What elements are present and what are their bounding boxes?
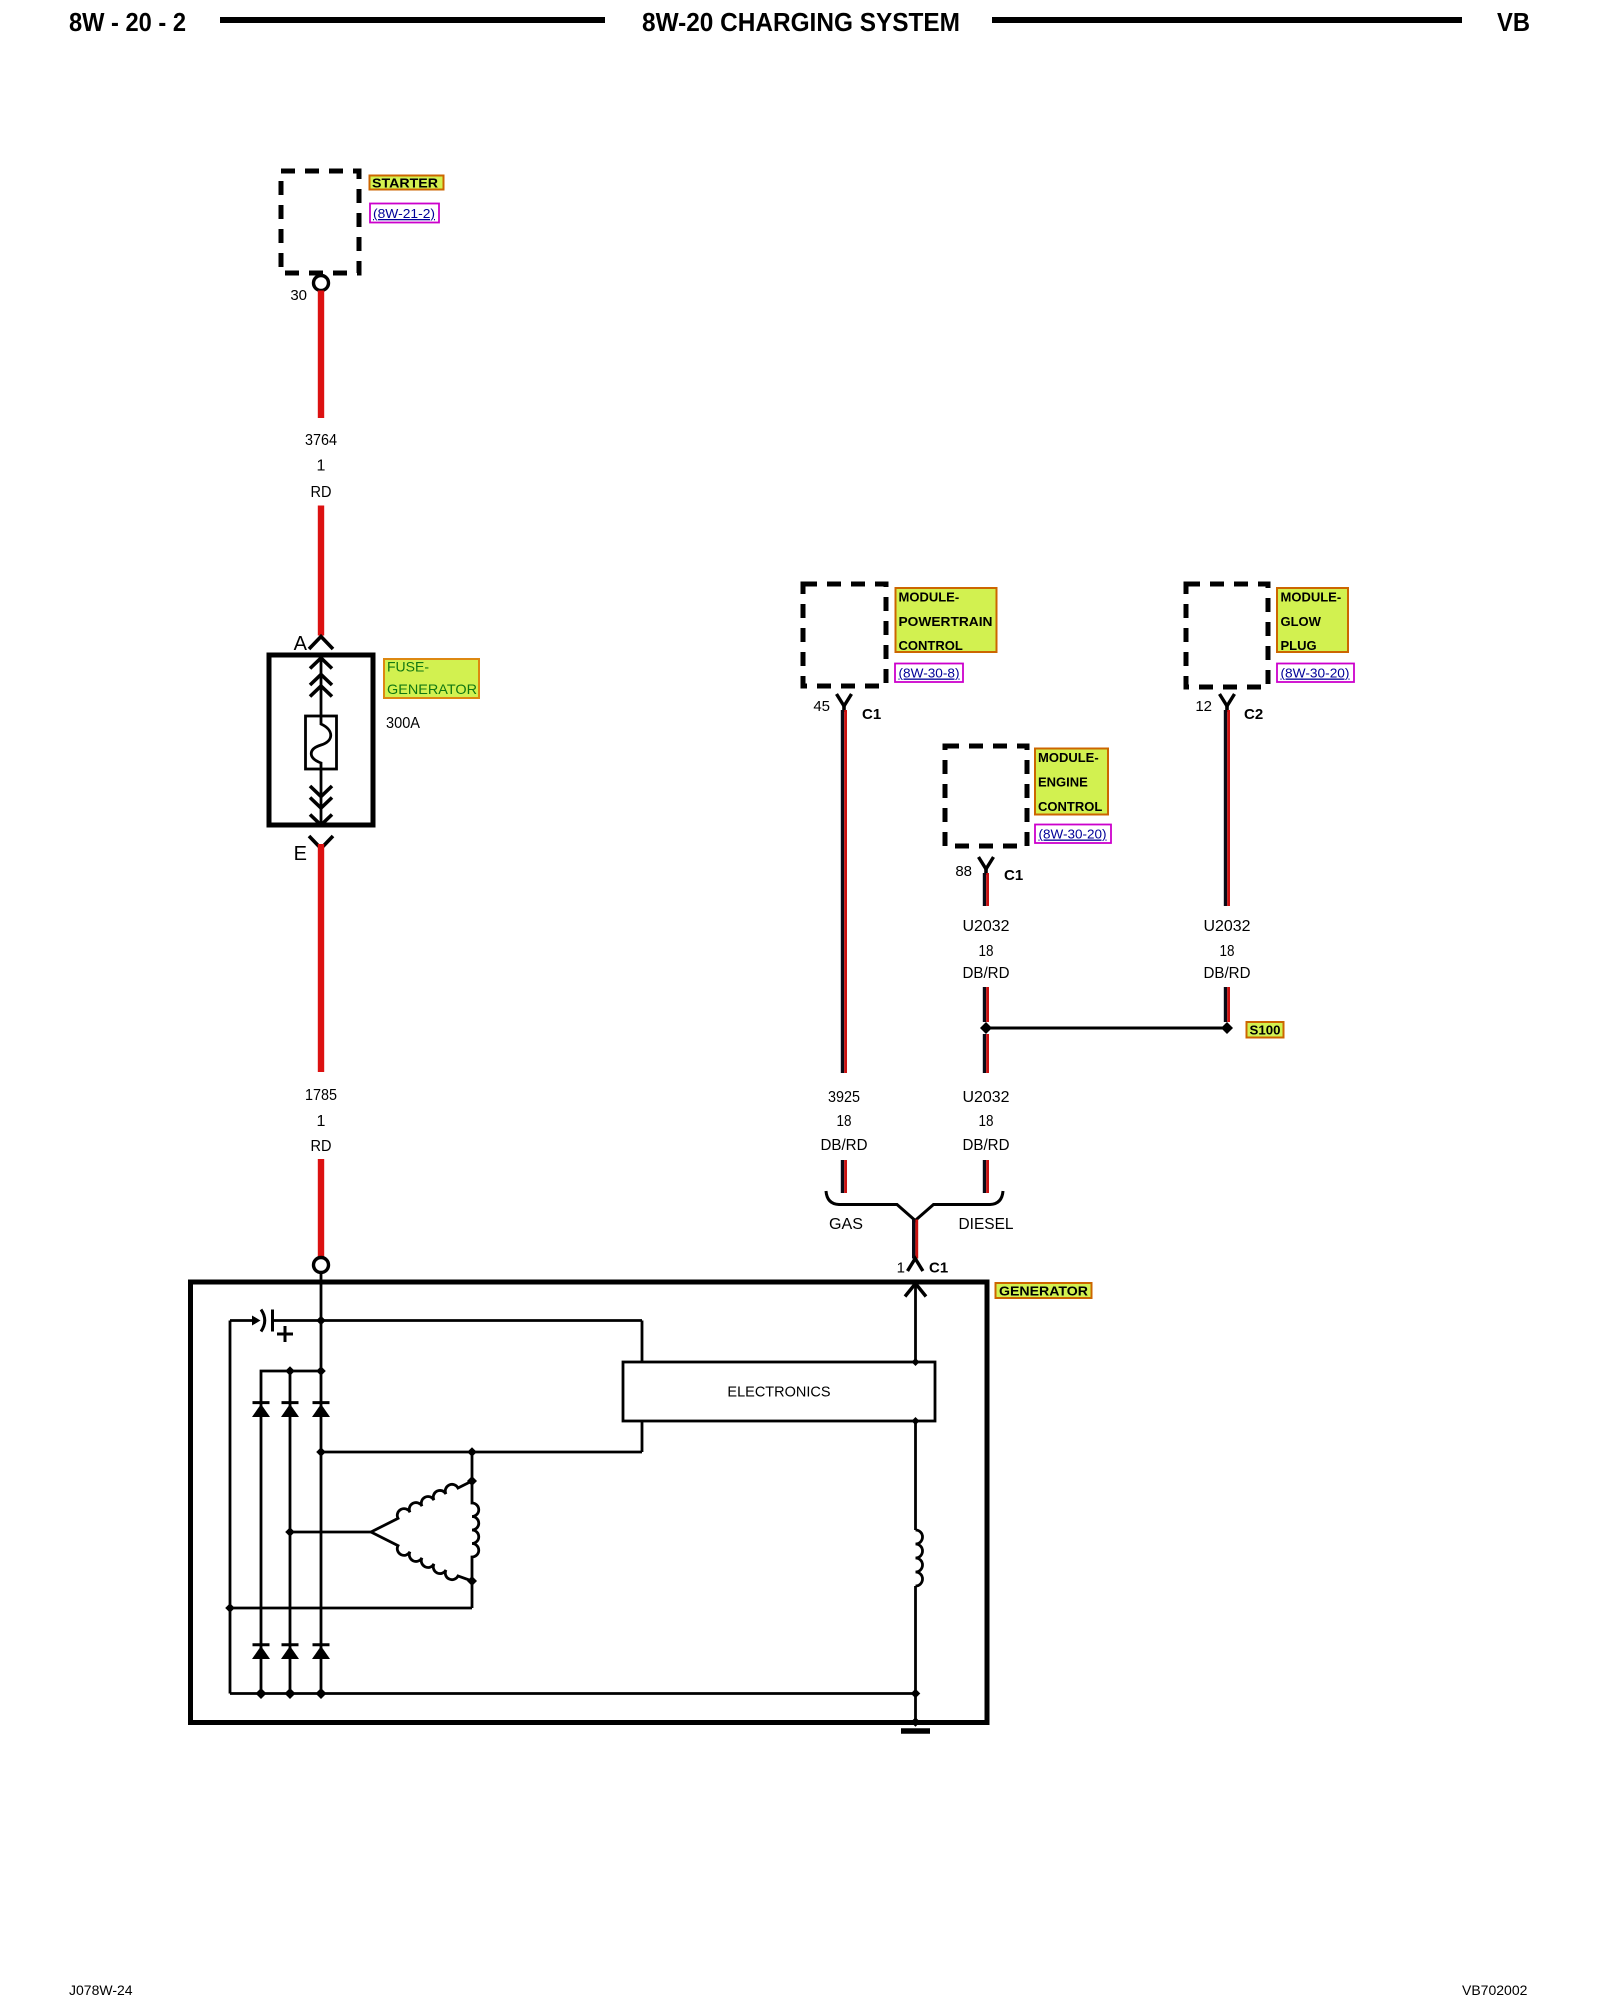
wire stator top vertex drop — [471, 1452, 474, 1481]
header rule left — [220, 17, 605, 23]
fuse internal lead upper — [320, 655, 323, 717]
junction dot ground rail x=321 — [316, 1688, 327, 1699]
svg-text:300A: 300A — [386, 715, 421, 732]
wire splice bus S100 — [986, 1027, 1227, 1030]
fuse element squiggle — [311, 716, 331, 769]
wire capacitor rail right segment to electronics — [273, 1319, 643, 1322]
label S100 — [1247, 1022, 1284, 1038]
svg-text:1: 1 — [317, 1113, 326, 1130]
svg-text:(8W-30-8): (8W-30-8) — [899, 666, 960, 681]
svg-text:ENGINE: ENGINE — [1038, 775, 1088, 790]
svg-text:MODULE-: MODULE- — [1281, 590, 1342, 605]
connector C1 cavity 1 Y symbol at generator — [908, 1259, 923, 1272]
svg-text:18: 18 — [979, 1113, 994, 1130]
splice joint S100 right — [1221, 1022, 1233, 1034]
field feed arrow into generator — [905, 1284, 926, 1297]
svg-text:3925: 3925 — [828, 1089, 860, 1106]
svg-text:DB/RD: DB/RD — [963, 1137, 1010, 1154]
node dot stator top vertex — [467, 1476, 477, 1486]
field winding (rotor coil) — [916, 1530, 923, 1586]
module-powertrain control (dashed component box) — [803, 584, 886, 686]
svg-text:(8W-21-2): (8W-21-2) — [373, 206, 435, 221]
wire stator bottom vertex drop — [471, 1581, 474, 1608]
stator delta winding top coil — [371, 1481, 472, 1532]
svg-text:DIESEL: DIESEL — [959, 1216, 1014, 1233]
svg-text:1785: 1785 — [305, 1087, 337, 1104]
svg-text:GAS: GAS — [829, 1216, 863, 1233]
label GENERATOR — [996, 1283, 1092, 1299]
svg-text:MODULE-: MODULE- — [1038, 750, 1099, 765]
wire phase A tap to stator — [321, 1451, 642, 1454]
svg-text:VB702002: VB702002 — [1462, 1982, 1528, 1998]
svg-text:U2032: U2032 — [963, 918, 1010, 935]
wire diode top rail — [261, 1371, 321, 1694]
node dot stator bottom vertex — [467, 1576, 477, 1586]
header rule right — [992, 17, 1462, 23]
wire ground rail — [230, 1692, 916, 1695]
stator delta winding right coil — [472, 1481, 479, 1581]
svg-text:45: 45 — [813, 698, 830, 715]
wire B+ main vertical bus (node B+) — [320, 1273, 323, 1694]
capacitor arrow — [252, 1316, 261, 1326]
fuse internal lead lower — [320, 768, 323, 825]
svg-text:CONTROL: CONTROL — [899, 638, 963, 653]
label MODULE-ENGINE CONTROL — [1035, 749, 1108, 815]
generator component box — [191, 1282, 988, 1723]
svg-text:8W-20 CHARGING SYSTEM: 8W-20 CHARGING SYSTEM — [642, 7, 960, 37]
junction dot B+/capacitor rail — [316, 1316, 326, 1326]
svg-text:GLOW: GLOW — [1281, 614, 1322, 629]
junction dot case ground — [911, 1717, 921, 1727]
wire U2032 18 DB/RD (ECM segment 4) — [983, 1160, 986, 1193]
capacitor straight plate — [271, 1310, 274, 1332]
wire field feed upper — [914, 1284, 917, 1363]
svg-text:PLUG: PLUG — [1281, 638, 1317, 653]
svg-text:J078W-24: J078W-24 — [69, 1982, 133, 1998]
junction dot stator top vertex feed — [467, 1447, 477, 1457]
svg-text:DB/RD: DB/RD — [963, 965, 1010, 982]
svg-text:DB/RD: DB/RD — [1204, 965, 1251, 982]
starter (dashed component box) — [281, 171, 359, 273]
wire 1785 1 RD (lower segment) — [318, 1159, 324, 1258]
svg-text:VB: VB — [1497, 7, 1530, 37]
svg-text:A: A — [294, 633, 308, 655]
svg-text:18: 18 — [837, 1113, 852, 1130]
svg-text:POWERTRAIN: POWERTRAIN — [899, 614, 993, 629]
junction dot diode rail col2 — [285, 1366, 295, 1376]
connector C2 cavity 12 Y symbol — [1220, 694, 1235, 706]
wire 3925 18 DB/RD (PCM segment upper) — [841, 710, 844, 1073]
svg-text:U2032: U2032 — [963, 1089, 1010, 1106]
ring terminal at generator B+ — [314, 1258, 329, 1273]
diode (upper rectifier) col x=261 — [253, 1401, 270, 1404]
label MODULE-POWERTRAIN CONTROL — [896, 588, 997, 653]
fuse internal chevrons down — [310, 786, 332, 797]
wire DB/RD to generator C1 — [912, 1220, 915, 1259]
svg-text:CONTROL: CONTROL — [1038, 799, 1102, 814]
junction dot ground rail x=290 — [285, 1688, 296, 1699]
wire U2032 18 DB/RD (glow plug segment lower) — [1224, 987, 1227, 1022]
wire U2032 18 DB/RD (glow plug segment upper) — [1224, 710, 1227, 906]
node dot electronics bottom — [912, 1417, 920, 1425]
fuse-generator outer box — [269, 655, 373, 825]
svg-text:30: 30 — [290, 287, 307, 304]
svg-text:1: 1 — [317, 458, 326, 475]
svg-text:88: 88 — [955, 863, 972, 880]
svg-text:1: 1 — [897, 1260, 905, 1277]
svg-text:GENERATOR: GENERATOR — [999, 1284, 1089, 1299]
junction dot diode rail B+ — [316, 1366, 326, 1376]
wire 3764 1 RD (lower segment) — [318, 506, 324, 636]
capacitor + polarity mark — [277, 1333, 293, 1336]
svg-text:U2032: U2032 — [1204, 918, 1251, 935]
connector C1 cavity 45 Y symbol — [837, 694, 852, 706]
connector C1 cavity 88 Y symbol — [979, 857, 994, 869]
junction dot phase A tap — [316, 1447, 326, 1457]
wire 1785 1 RD (upper segment) — [318, 844, 324, 1072]
svg-text:C2: C2 — [1244, 706, 1263, 723]
svg-text:GENERATOR: GENERATOR — [387, 681, 477, 697]
label link (8W-30-8) — [895, 664, 963, 683]
wire phase C tap — [230, 1607, 472, 1610]
svg-text:18: 18 — [979, 943, 994, 960]
svg-text:(8W-30-20): (8W-30-20) — [1039, 827, 1107, 842]
wire 3764 1 RD (upper segment) — [318, 291, 324, 419]
diode (upper rectifier) col x=290 — [282, 1401, 299, 1404]
svg-text:STARTER: STARTER — [372, 176, 439, 191]
stator delta winding bottom coil — [371, 1532, 472, 1581]
svg-text:ELECTRONICS: ELECTRONICS — [727, 1385, 830, 1401]
svg-text:RD: RD — [311, 1138, 332, 1155]
label link (8W-30-20) — [1277, 664, 1354, 683]
svg-text:E: E — [294, 843, 307, 865]
wire U2032 18 DB/RD (ECM segment 3) — [983, 1034, 986, 1073]
brace joining GAS and DIESEL branches — [826, 1191, 1003, 1221]
svg-text:C1: C1 — [1004, 867, 1023, 884]
svg-text:(8W-30-20): (8W-30-20) — [1281, 666, 1350, 681]
wire capacitor rail left segment — [230, 1319, 253, 1322]
splice joint on ECM branch — [980, 1022, 992, 1034]
label FUSE-GENERATOR — [384, 659, 479, 699]
diode (lower rectifier) col x=290 — [282, 1643, 299, 1646]
svg-text:8W - 20 - 2: 8W - 20 - 2 — [69, 7, 186, 37]
wire U2032 18 DB/RD (ECM segment 1) — [983, 873, 986, 906]
electronics module box — [623, 1362, 935, 1421]
svg-text:RD: RD — [311, 484, 332, 501]
node dot electronics top — [912, 1358, 920, 1366]
ground symbol below generator — [901, 1728, 930, 1734]
label link (8W-21-2) — [370, 204, 439, 223]
wire rectifier column 2 — [289, 1371, 292, 1694]
wire phase B tap — [290, 1531, 371, 1534]
svg-text:12: 12 — [1195, 698, 1212, 715]
svg-text:MODULE-: MODULE- — [899, 590, 960, 605]
wire field winding upper lead — [914, 1421, 917, 1530]
label MODULE-GLOW PLUG — [1277, 588, 1348, 653]
svg-text:S100: S100 — [1250, 1024, 1281, 1038]
capacitor C (polarized) curved plate — [261, 1310, 265, 1332]
diode (upper rectifier) col x=321 — [313, 1401, 330, 1404]
connector cavity A chevron — [309, 637, 333, 650]
svg-text:DB/RD: DB/RD — [821, 1137, 868, 1154]
module-glow plug (dashed component box) — [1186, 584, 1268, 687]
connector ring terminal 30 at starter — [314, 276, 329, 291]
label link (8W-30-20) — [1035, 825, 1111, 844]
svg-text:C1: C1 — [862, 706, 881, 723]
svg-text:18: 18 — [1220, 943, 1235, 960]
fuse internal chevrons up — [310, 658, 332, 669]
label STARTER — [370, 176, 444, 191]
diode (lower rectifier) col x=321 — [313, 1643, 330, 1646]
diode (lower rectifier) col x=261 — [253, 1643, 270, 1646]
fuse element body box — [306, 716, 337, 769]
junction dot ground rail x=261 — [256, 1688, 267, 1699]
wire 3925 18 DB/RD (PCM segment lower) — [841, 1160, 844, 1193]
junction dot phase C tap — [225, 1603, 235, 1613]
wire capacitor branch left vertical — [229, 1321, 232, 1694]
junction dot phase B tap — [285, 1527, 295, 1537]
svg-text:3764: 3764 — [305, 432, 337, 449]
svg-text:C1: C1 — [929, 1260, 948, 1277]
wire electronics feed vertical lower — [641, 1421, 644, 1452]
connector cavity E chevron — [309, 836, 333, 849]
module-engine control (dashed component box) — [945, 746, 1027, 846]
svg-text:FUSE-: FUSE- — [387, 659, 429, 675]
wire U2032 18 DB/RD (ECM segment 2) — [983, 987, 986, 1022]
junction dot field/ground rail — [911, 1689, 921, 1699]
wire electronics feed vertical upper — [641, 1321, 644, 1363]
wire field winding lower lead — [914, 1586, 917, 1722]
